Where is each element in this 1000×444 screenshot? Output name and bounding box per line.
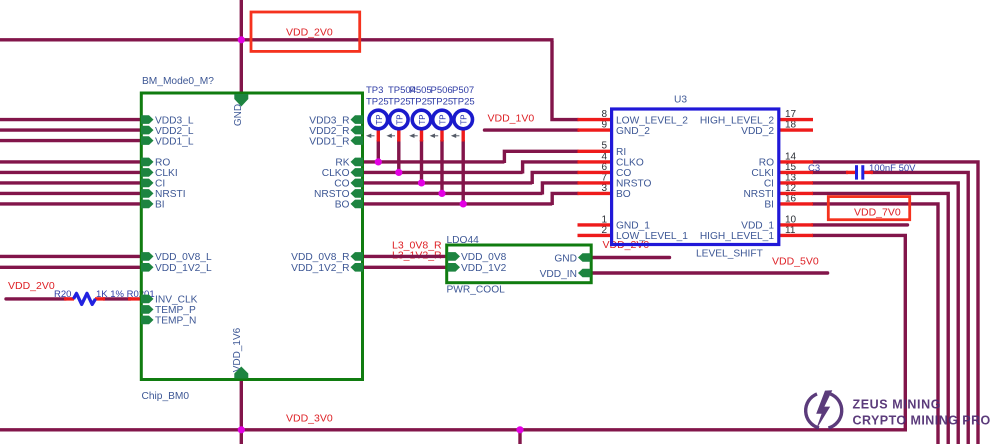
testpoint TP2 circle <box>390 110 409 129</box>
testpoint TP3 circle <box>412 110 431 129</box>
svg-text:VDD_0V8_L: VDD_0V8_L <box>155 252 212 263</box>
U3 pin 8 stub <box>578 118 613 121</box>
svg-text:BM_Mode0_M?: BM_Mode0_M? <box>142 76 214 87</box>
svg-text:VDD_1V2_L: VDD_1V2_L <box>155 263 212 274</box>
svg-text:NRSTI: NRSTI <box>743 189 774 200</box>
svg-text:CO: CO <box>616 168 631 179</box>
svg-text:BO: BO <box>616 189 631 200</box>
svg-text:TEMP_P: TEMP_P <box>155 305 196 316</box>
svg-text:VDD_0V8_R: VDD_0V8_R <box>291 252 349 263</box>
pin VDD1_R <box>351 136 364 145</box>
pin CO <box>351 179 364 188</box>
svg-text:CO: CO <box>334 179 349 190</box>
svg-text:NRSTO: NRSTO <box>314 189 350 200</box>
pin VDD1_L <box>141 136 154 145</box>
svg-text:VDD3_L: VDD3_L <box>155 115 194 126</box>
wire staircase step to U3 RI <box>504 151 578 163</box>
pin VDD_1V2_R <box>351 263 364 272</box>
wire staircase step to U3 NRSTO <box>542 183 578 195</box>
svg-text:VDD1_L: VDD1_L <box>155 136 194 147</box>
svg-text:Chip_BM0: Chip_BM0 <box>142 391 190 402</box>
wire U3 BI to right drop through VDD_7V0 box <box>812 204 938 444</box>
wire U3 NRSTI to right drop <box>812 193 948 444</box>
wire VDD_2V0 vertical into chip GND pin <box>240 0 243 93</box>
wire VDD_0V8 chip to LDO <box>363 255 449 258</box>
svg-text:TP: TP <box>395 114 404 124</box>
pin INV_CLK <box>141 295 154 304</box>
svg-text:GND: GND <box>233 104 244 126</box>
svg-text:P506: P506 <box>431 85 453 96</box>
TP2 pin1 tick <box>389 135 396 137</box>
svg-text:L3_0V8_R: L3_0V8_R <box>392 239 442 251</box>
svg-text:VDD2_L: VDD2_L <box>155 126 194 137</box>
U3 pin 3 stub <box>578 192 613 195</box>
wire GND_2 to U3 pin 9 <box>485 128 579 131</box>
svg-text:VDD1_R: VDD1_R <box>309 136 349 147</box>
pin RK <box>351 158 364 167</box>
wire VDD_1V2 chip to LDO <box>363 266 449 269</box>
chip Chip_BM0 box <box>141 93 362 380</box>
svg-text:VDD_7V0: VDD_7V0 <box>854 207 901 219</box>
pin CI <box>141 179 154 188</box>
svg-text:BO: BO <box>335 200 350 211</box>
pin NRSTO <box>351 189 364 198</box>
resistor R20 zigzag <box>74 293 96 304</box>
svg-text:VDD_5V0: VDD_5V0 <box>772 255 819 267</box>
svg-text:VDD_1V2_R: VDD_1V2_R <box>291 263 349 274</box>
wire VDD1_L <box>0 139 143 142</box>
wire U3 VDD_1 / VDD_7V0 <box>812 223 908 226</box>
svg-text:HIGH_LEVEL_1: HIGH_LEVEL_1 <box>700 231 775 242</box>
svg-text:TP25: TP25 <box>410 97 433 108</box>
junction TP4/NRSTO <box>438 190 445 197</box>
logo Zeus circle <box>806 394 842 428</box>
U3 pin 1 stub <box>578 223 613 226</box>
TP2 pin stub <box>397 130 400 142</box>
svg-text:CRYPTO MINING PRO: CRYPTO MINING PRO <box>853 414 991 428</box>
svg-text:VDD3_R: VDD3_R <box>309 115 349 126</box>
resistor R20 right lead <box>95 297 105 300</box>
U3 pin 7 stub <box>578 181 613 184</box>
svg-text:ZEUS MINING: ZEUS MINING <box>853 398 942 412</box>
U3 pin 16 stub <box>779 202 814 205</box>
pin BO <box>351 200 364 209</box>
TP4 pin1 tick <box>432 135 439 137</box>
wire C3 to right drop <box>871 172 968 444</box>
U3 pin 17 stub <box>779 118 814 121</box>
svg-text:TP3: TP3 <box>366 85 383 96</box>
wire CLKO row to staircase <box>363 171 523 174</box>
wire chip bottom VDD_1V6 drop <box>240 380 243 444</box>
wire U3 RO to right drop <box>812 162 978 444</box>
wire TP4 drop <box>440 140 443 193</box>
pin VDD2_L <box>141 126 154 135</box>
power port box VDD_2V0 <box>251 12 360 51</box>
svg-text:LOW_LEVEL_2: LOW_LEVEL_2 <box>616 115 688 126</box>
pin LDO VDD_1V2 <box>448 263 461 272</box>
testpoint TP1 circle <box>369 110 388 129</box>
wire CLKI left <box>0 171 143 174</box>
TP5 pin1 tick <box>453 135 460 137</box>
U3 pin 5 stub <box>578 150 613 153</box>
U3 pin 4 stub <box>578 160 613 163</box>
testpoint TP5 circle <box>454 110 473 129</box>
svg-text:NRSTO: NRSTO <box>616 179 652 190</box>
U3 pin 12 stub <box>779 192 814 195</box>
pin VDD_0V8_L <box>141 252 154 261</box>
U3 pin 13 stub <box>779 181 814 184</box>
svg-text:GND_2: GND_2 <box>616 126 650 137</box>
capacitor C3 left lead <box>846 171 855 174</box>
wire U3 CI to right drop <box>812 183 958 444</box>
wire NRSTI left <box>0 192 143 195</box>
svg-text:CLKO: CLKO <box>616 158 644 169</box>
capacitor C3 plates <box>857 165 863 179</box>
svg-text:VDD_3V0: VDD_3V0 <box>286 413 333 425</box>
U3 pin 6 stub <box>578 171 613 174</box>
wire U3 HIGH_LEVEL_1 right and down to bottom bus <box>0 235 905 429</box>
wire RK row to staircase <box>363 160 505 163</box>
pin VDD_0V8_R <box>351 252 364 261</box>
svg-text:P505: P505 <box>410 85 432 96</box>
pin CLKO <box>351 168 364 177</box>
wire RO left <box>0 160 143 163</box>
svg-text:LEVEL_SHIFT: LEVEL_SHIFT <box>696 249 763 260</box>
svg-text:HIGH_LEVEL_2: HIGH_LEVEL_2 <box>700 115 775 126</box>
wire TP5 drop <box>462 140 465 204</box>
power port box VDD_7V0 <box>828 197 909 220</box>
svg-text:INV_CLK: INV_CLK <box>155 295 198 306</box>
wire NRSTO row to staircase <box>363 192 543 195</box>
wire CI left <box>0 181 143 184</box>
svg-text:TP25: TP25 <box>366 97 389 108</box>
svg-text:PWR_COOL: PWR_COOL <box>447 285 506 296</box>
svg-text:TP: TP <box>439 114 448 124</box>
svg-text:RO: RO <box>155 158 170 169</box>
TP5 pin stub <box>462 130 465 142</box>
wire TP2 drop <box>397 140 400 172</box>
svg-text:CLKI: CLKI <box>155 168 178 179</box>
wire staircase step to U3 CLKO <box>523 162 579 174</box>
wire CO row to staircase <box>363 181 533 184</box>
svg-text:VDD_2: VDD_2 <box>741 126 774 137</box>
svg-text:TP25: TP25 <box>431 97 454 108</box>
wire bottom stub at x520 <box>518 430 521 444</box>
wire staircase step to U3 CO <box>532 172 578 184</box>
wire R20 to INV_CLK pin <box>103 297 131 300</box>
svg-text:VDD_IN: VDD_IN <box>540 269 577 280</box>
wire VDD3_L <box>0 118 143 121</box>
svg-text:VDD_2V0: VDD_2V0 <box>286 26 333 38</box>
junction TP5/BO <box>460 200 467 207</box>
pin VDD3_R <box>351 115 364 124</box>
TP3 pin stub <box>420 130 423 142</box>
junction at VDD_2V0 vertical <box>238 36 245 43</box>
svg-text:CLKI: CLKI <box>751 168 774 179</box>
U3 pin 14 stub <box>779 160 814 163</box>
junction TP1/RK <box>375 158 382 165</box>
wire TP3 drop <box>420 140 423 183</box>
op-amp U1 : U3 LEVEL_SHIFT box <box>612 109 779 245</box>
wire TP1 drop <box>377 140 380 162</box>
junction bottom bus / chip VDD_1V6 <box>238 426 245 433</box>
svg-text:NRSTI: NRSTI <box>155 189 186 200</box>
pin NRSTI <box>141 189 154 198</box>
wire BI left <box>0 202 143 205</box>
U3 pin 2 stub <box>578 234 613 237</box>
pin LDO VDD_0V8 <box>448 252 461 261</box>
svg-text:TP: TP <box>375 114 384 124</box>
junction TP3/CO <box>418 179 425 186</box>
svg-text:BI: BI <box>155 200 165 211</box>
IC LDO44 PWR_COOL box <box>447 245 592 283</box>
pin BI <box>141 200 154 209</box>
svg-text:VDD_1V6: VDD_1V6 <box>232 327 243 372</box>
pin LDO VDD_IN <box>578 269 591 278</box>
wire VDD2_L <box>0 128 143 131</box>
svg-text:TP: TP <box>418 114 427 124</box>
wire VDD_2V0 vertical drop to U3 pin 8 <box>552 41 579 120</box>
pin VDD3_L <box>141 115 154 124</box>
svg-text:TP25: TP25 <box>452 97 475 108</box>
svg-text:U3: U3 <box>674 95 687 106</box>
svg-text:VDD2_R: VDD2_R <box>309 126 349 137</box>
wire BO row to staircase <box>363 202 553 205</box>
wire VDD_0V8_L <box>0 255 143 258</box>
svg-text:CI: CI <box>764 179 774 190</box>
pin TEMP_P <box>141 305 154 314</box>
svg-text:TP: TP <box>460 114 469 124</box>
U3 pin 11 stub <box>779 234 814 237</box>
wire staircase step to U3 BO <box>552 193 578 205</box>
pin VDD_1V2_L <box>141 263 154 272</box>
TP3 pin1 tick <box>411 135 418 137</box>
svg-text:TP25: TP25 <box>388 97 411 108</box>
svg-text:CLKO: CLKO <box>322 168 350 179</box>
svg-text:VDD_0V8: VDD_0V8 <box>461 252 507 263</box>
wire VDD_2V0 horizontal top <box>0 38 554 41</box>
TP1 pin stub <box>377 130 380 142</box>
INV_CLK pin lead <box>128 297 142 300</box>
junction bottom bus x520 <box>516 426 523 433</box>
U3 pin 10 stub <box>779 223 814 226</box>
pin VDD2_R <box>351 126 364 135</box>
TP1 pin1 tick <box>368 135 375 137</box>
pin LDO GND <box>578 253 591 262</box>
resistor R20 left lead <box>64 297 74 300</box>
testpoint TP4 circle <box>433 110 452 129</box>
svg-text:P507: P507 <box>452 85 474 96</box>
pin GND top of chip <box>234 94 248 107</box>
wire LDO GND out <box>590 256 670 259</box>
U3 pin 18 stub <box>779 128 814 131</box>
pin RO <box>141 158 154 167</box>
U3 pin 15 stub <box>779 171 814 174</box>
svg-text:100nF 50V: 100nF 50V <box>869 163 916 174</box>
svg-text:RO: RO <box>759 158 774 169</box>
wire VDD_2V0 to resistor R20 <box>6 297 66 300</box>
TP4 pin stub <box>440 130 443 142</box>
svg-text:VDD_1V0: VDD_1V0 <box>488 113 535 125</box>
pin VDD_1V6 bottom of chip <box>234 367 248 379</box>
junction TP2/CLKO <box>395 169 402 176</box>
pin TEMP_N <box>141 316 154 325</box>
svg-text:VDD_1: VDD_1 <box>741 221 774 232</box>
svg-text:BI: BI <box>764 200 774 211</box>
svg-text:RI: RI <box>616 147 626 158</box>
capacitor C3 right lead <box>864 171 873 174</box>
svg-text:CI: CI <box>155 179 165 190</box>
wire VDD_1V2_L <box>0 266 143 269</box>
svg-text:GND: GND <box>554 253 577 264</box>
logo lightning bolt <box>816 390 833 430</box>
svg-text:VDD_1V2: VDD_1V2 <box>461 263 507 274</box>
svg-text:GND_1: GND_1 <box>616 221 650 232</box>
svg-text:VDD_2V0: VDD_2V0 <box>8 280 55 292</box>
U3 pin 9 stub <box>578 128 613 131</box>
svg-text:TEMP_N: TEMP_N <box>155 316 196 327</box>
wire LDO VDD_IN / VDD_5V0 <box>590 271 828 274</box>
wire U3 CLKI to C3 <box>812 171 848 174</box>
pin CLKI <box>141 168 154 177</box>
svg-text:RK: RK <box>335 158 349 169</box>
